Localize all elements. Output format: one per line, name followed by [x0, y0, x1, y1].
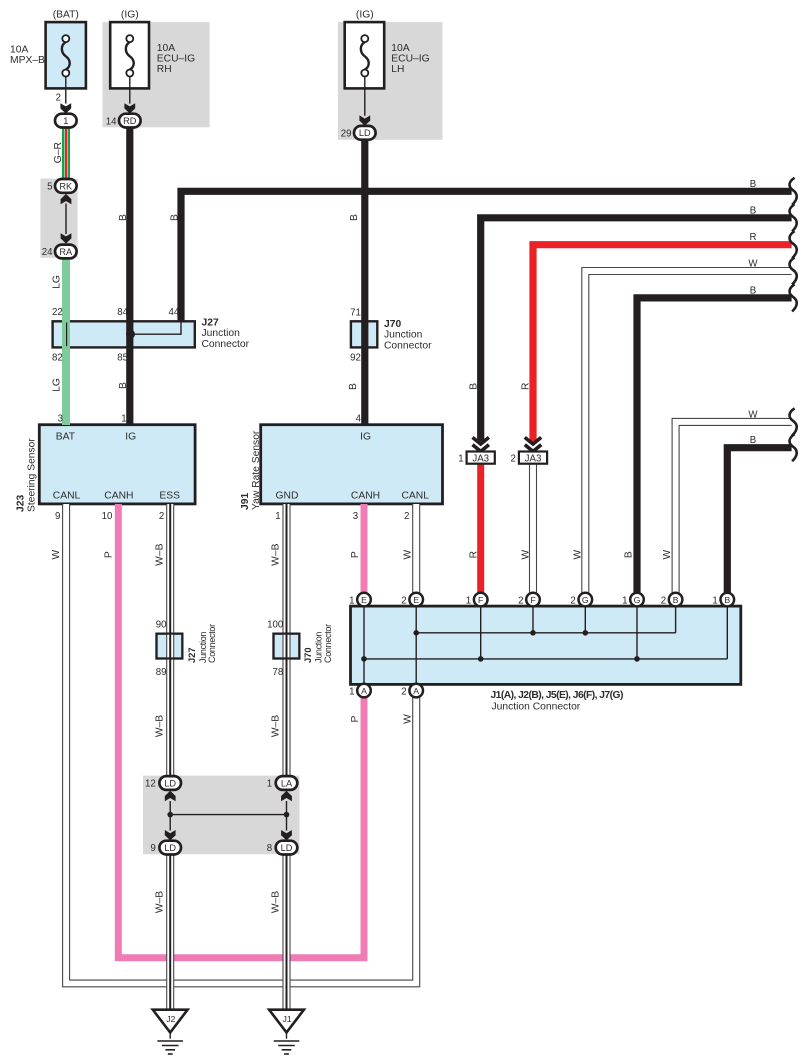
svg-text:B: B [348, 383, 359, 390]
svg-text:Connector: Connector [323, 624, 333, 663]
gray box dots [167, 812, 173, 818]
svg-text:B: B [750, 179, 756, 190]
svg-text:1: 1 [466, 595, 471, 606]
svg-text:14: 14 [106, 116, 117, 127]
svg-text:B: B [468, 383, 479, 390]
wire P steering CANH to junction 1A (U route) [118, 504, 364, 958]
svg-text:RA: RA [59, 247, 73, 257]
svg-text:J91: J91 [240, 493, 251, 510]
svg-text:G: G [634, 595, 641, 605]
svg-text:J1: J1 [283, 1014, 292, 1024]
svg-text:LH: LH [391, 64, 404, 75]
svg-text:J23: J23 [16, 495, 27, 512]
svg-text:B: B [118, 214, 129, 221]
svg-text:2: 2 [511, 454, 516, 465]
svg-text:2: 2 [401, 595, 406, 606]
svg-text:Connector: Connector [384, 340, 432, 351]
wire B from right edge to junction pin 1B [727, 448, 791, 594]
connector oval RK [55, 179, 77, 193]
svg-text:J27: J27 [202, 318, 219, 329]
junction box inner vertical 2E-2A [415, 606, 417, 684]
junction box upper bus line [416, 632, 675, 634]
continuation squiggle B y191 [790, 178, 797, 205]
svg-text:2: 2 [518, 595, 523, 606]
svg-text:CANL: CANL [53, 491, 81, 502]
junction connector J27 (top) box [53, 321, 195, 347]
wire W steering CANL to junction 2A (U route) [66, 504, 416, 983]
steering sensor J23 box [39, 425, 195, 504]
svg-text:W: W [520, 550, 531, 560]
fuse F3 symbol [361, 35, 369, 76]
svg-text:B: B [118, 382, 129, 389]
svg-text:JA3: JA3 [472, 453, 489, 464]
continuation squiggle W y421 [790, 408, 797, 435]
fuse F1 lead wire [65, 76, 67, 103]
svg-text:Junction: Junction [384, 330, 423, 341]
svg-text:8: 8 [267, 843, 272, 854]
svg-text:85: 85 [117, 352, 128, 363]
svg-text:1: 1 [458, 454, 463, 465]
svg-text:(BAT): (BAT) [53, 10, 79, 21]
svg-text:W: W [51, 550, 62, 560]
svg-text:1: 1 [63, 116, 68, 126]
junction box dots lower bus [361, 656, 367, 662]
svg-text:LG: LG [51, 378, 62, 392]
svg-text:A: A [361, 686, 367, 696]
svg-text:W: W [662, 550, 673, 560]
svg-text:B: B [169, 214, 180, 221]
svg-text:P: P [350, 715, 361, 722]
svg-text:R: R [468, 551, 479, 558]
svg-text:89: 89 [156, 667, 167, 678]
svg-text:B: B [623, 551, 634, 558]
continuation squiggle W y271 [790, 258, 797, 285]
junction pin circle 1E [357, 593, 371, 607]
svg-text:J27: J27 [187, 647, 197, 663]
wire R JA3 no.1 to junction 1F [477, 464, 484, 594]
svg-text:1: 1 [275, 511, 280, 522]
svg-text:MPX–B: MPX–B [10, 55, 45, 66]
wire LG from RA through J27 to steering sensor BAT [62, 258, 70, 425]
svg-text:W: W [748, 409, 758, 420]
svg-text:Junction Connector: Junction Connector [492, 702, 581, 713]
svg-text:B: B [349, 214, 360, 221]
wire R from right edge to JA3 no.2 [533, 245, 792, 442]
svg-text:(IG): (IG) [356, 10, 374, 21]
junction box lower bus line [364, 658, 727, 660]
junction box inner vertical 1F [480, 606, 482, 659]
svg-text:Yaw Rate Sensor: Yaw Rate Sensor [251, 430, 262, 510]
svg-text:B: B [673, 595, 679, 605]
svg-text:W: W [572, 550, 583, 560]
wire B from J27 pin 44 to right edge [181, 191, 792, 322]
connector oval LD 29 [354, 126, 376, 140]
gray box link lines [169, 801, 171, 831]
fuse F1 pin 2 arrow [60, 103, 71, 113]
junction connector J70 (top) box [351, 321, 377, 347]
wire W-B yaw GND down to ground J1 (three segments) [274, 504, 300, 1010]
svg-text:B: B [750, 285, 756, 296]
junction pin circle 1A [357, 684, 371, 698]
svg-text:F: F [530, 595, 535, 605]
svg-text:A: A [413, 686, 419, 696]
junction box inner vertical 1G [636, 606, 638, 659]
svg-text:100: 100 [267, 620, 284, 631]
gray connector block LD/LA [143, 776, 300, 855]
wire P yaw CANH to junction 1E [361, 504, 368, 593]
svg-text:44: 44 [169, 307, 180, 318]
LD up arrow left [165, 791, 176, 801]
wire B from right edge to JA3 no.1 [481, 218, 792, 442]
svg-text:W: W [403, 550, 414, 560]
svg-text:10A: 10A [10, 45, 28, 56]
svg-text:IG: IG [360, 432, 371, 443]
svg-text:CANH: CANH [104, 491, 133, 502]
svg-text:LD: LD [359, 128, 371, 138]
svg-text:Connector: Connector [207, 624, 217, 663]
svg-text:LD: LD [281, 843, 293, 853]
ground J1 [269, 1010, 304, 1054]
junction pin circle 2A [409, 684, 423, 698]
svg-text:10A: 10A [391, 43, 409, 54]
fuse F3 pin arrow [359, 115, 370, 125]
ground J2 [153, 1010, 188, 1054]
J27 top inner divider [66, 323, 68, 347]
svg-text:W–B: W–B [154, 891, 165, 913]
junction pin circle 1F [474, 593, 488, 607]
RK-RA up arrow [61, 194, 72, 204]
JA3 no.2 chevron arrows [525, 437, 541, 451]
svg-text:10A: 10A [157, 43, 175, 54]
svg-text:G: G [582, 595, 589, 605]
continuation squiggle R y244 [790, 231, 797, 258]
continuation squiggle B y447 [790, 434, 797, 461]
svg-text:LG: LG [51, 275, 62, 289]
connector oval LD 8 [276, 841, 298, 855]
J27 top junction dot [126, 330, 135, 339]
svg-text:LD: LD [164, 778, 176, 788]
RK-RA down arrow [61, 233, 72, 243]
svg-text:J2: J2 [166, 1014, 175, 1024]
svg-text:GND: GND [276, 491, 299, 502]
svg-text:BAT: BAT [56, 432, 76, 443]
svg-text:RD: RD [123, 116, 137, 126]
svg-text:Steering Sensor: Steering Sensor [27, 438, 38, 512]
svg-text:29: 29 [341, 129, 352, 140]
JA3 no.2 box [519, 452, 547, 465]
svg-text:2: 2 [404, 511, 409, 522]
svg-text:P: P [350, 551, 361, 558]
wire B from right edge to junction pin 1G [637, 298, 792, 593]
fuse F3 10A ECU-IG LH box [345, 22, 385, 88]
svg-text:RH: RH [157, 64, 172, 75]
fuse F2 10A ECU-IG RH box [110, 22, 149, 88]
fuse F3 lead wire [364, 76, 366, 115]
wire W-B steering ESS down to ground J2 (three segments) [157, 504, 183, 1010]
RK-RA link line [65, 204, 67, 235]
wire W JA3 no.2 to junction 2F [530, 464, 537, 594]
junction connector J1/J2/J5/J6/J7 box [351, 606, 741, 684]
junction pin circle 2B [669, 593, 683, 607]
junction box inner vertical 2G [584, 606, 586, 633]
svg-text:R: R [750, 232, 757, 243]
svg-text:W–B: W–B [271, 715, 282, 737]
J27 top inner link from pin 44 [131, 323, 182, 335]
svg-text:82: 82 [52, 352, 63, 363]
svg-text:R: R [520, 383, 531, 390]
svg-text:E: E [413, 595, 419, 605]
svg-text:12: 12 [145, 779, 156, 790]
LD down arrow right [281, 830, 292, 840]
svg-text:1: 1 [622, 595, 627, 606]
svg-text:24: 24 [42, 247, 53, 258]
svg-text:J1(A), J2(B), J5(E), J6(F), J7: J1(A), J2(B), J5(E), J6(F), J7(G) [491, 690, 623, 701]
svg-text:W: W [403, 714, 414, 724]
svg-text:78: 78 [273, 667, 284, 678]
junction pin circle 2F [526, 593, 540, 607]
svg-text:Junction: Junction [202, 328, 241, 339]
svg-text:LA: LA [281, 778, 293, 788]
wire W yaw CANL to junction 2E [413, 504, 420, 593]
junction connector J27 (lower) box [157, 634, 183, 659]
svg-text:90: 90 [156, 620, 167, 631]
svg-text:RK: RK [59, 181, 73, 191]
svg-text:ECU–IG: ECU–IG [157, 54, 195, 65]
wire B fuse F2 to J27 to steering sensor IG [126, 127, 133, 425]
svg-text:W–B: W–B [271, 891, 282, 913]
svg-text:IG: IG [125, 432, 136, 443]
LD down arrow left [165, 830, 176, 840]
svg-text:ESS: ESS [159, 491, 180, 502]
svg-text:CANH: CANH [351, 491, 380, 502]
wire B fuse F3 to J70 to yaw rate sensor IG [361, 140, 368, 425]
svg-text:1: 1 [267, 779, 272, 790]
wire G-R from connector 1 to RK [62, 127, 70, 179]
connector oval RA [55, 245, 77, 259]
junction box inner vertical 1B [726, 606, 728, 659]
svg-text:F: F [478, 595, 483, 605]
svg-text:1: 1 [121, 414, 126, 425]
gray connector block RK/RA [40, 179, 77, 258]
svg-text:W: W [748, 259, 758, 270]
fuse F1 10A MPX-B box [46, 22, 86, 88]
continuation squiggle B y297 [790, 284, 797, 311]
junction box inner vertical 2F [532, 606, 534, 633]
svg-text:3: 3 [353, 511, 358, 522]
fuse F2 pin arrow [124, 103, 135, 113]
connector oval LA 1 [276, 776, 298, 790]
gray background behind fuse ECU-IG RH [103, 22, 210, 127]
svg-text:5: 5 [47, 182, 52, 193]
svg-text:J70: J70 [303, 647, 313, 663]
svg-text:84: 84 [117, 307, 128, 318]
svg-text:(IG): (IG) [121, 10, 139, 21]
connector oval LD 12 [159, 776, 181, 790]
junction pin circle 1B [721, 593, 735, 607]
svg-text:71: 71 [350, 308, 361, 319]
junction pin circle 1G [630, 593, 644, 607]
svg-text:B: B [750, 205, 756, 216]
fuse F2 symbol [126, 35, 134, 76]
svg-text:3: 3 [58, 414, 63, 425]
fuse F2 lead wire [129, 76, 131, 103]
fuse F1 symbol [62, 35, 70, 76]
svg-text:2: 2 [56, 93, 61, 104]
svg-text:B: B [724, 595, 730, 605]
svg-text:CANL: CANL [401, 491, 429, 502]
wire W from right edge to junction pin 2G [585, 271, 791, 593]
svg-text:1: 1 [349, 595, 354, 606]
connector oval LD 9 [159, 841, 181, 855]
svg-text:9: 9 [55, 511, 60, 522]
svg-text:ECU–IG: ECU–IG [391, 54, 429, 65]
svg-text:W–B: W–B [154, 715, 165, 737]
svg-text:E: E [361, 595, 367, 605]
LA up arrow right [281, 791, 292, 801]
svg-text:9: 9 [150, 843, 155, 854]
svg-text:J70: J70 [384, 319, 401, 330]
svg-text:G–R: G–R [53, 142, 64, 163]
gray background behind fuse ECU-IG LH [338, 22, 443, 140]
JA3 no.1 chevron arrows [473, 437, 489, 451]
svg-text:W–B: W–B [154, 543, 165, 565]
svg-text:P: P [103, 551, 114, 558]
svg-text:2: 2 [570, 595, 575, 606]
svg-text:92: 92 [350, 352, 361, 363]
svg-text:W–B: W–B [271, 543, 282, 565]
junction pin circle 2G [579, 593, 593, 607]
JA3 no.1 box [467, 452, 495, 465]
svg-text:22: 22 [52, 307, 63, 318]
svg-text:1: 1 [712, 595, 717, 606]
svg-text:B: B [750, 435, 756, 446]
svg-text:LD: LD [164, 843, 176, 853]
junction box dots upper bus [413, 630, 419, 636]
connector oval 1 [55, 114, 77, 128]
svg-text:10: 10 [102, 511, 113, 522]
svg-text:JA3: JA3 [525, 453, 542, 464]
junction pin circle 2E [409, 593, 423, 607]
wire W from right edge to junction pin 2B [676, 422, 792, 593]
svg-text:2: 2 [159, 511, 164, 522]
yaw rate sensor J91 box [261, 425, 443, 504]
svg-text:Connector: Connector [202, 339, 250, 350]
svg-text:4: 4 [356, 414, 362, 425]
junction connector J70 (lower) box [274, 634, 300, 659]
continuation squiggle B y217 [790, 204, 797, 231]
svg-text:2: 2 [401, 686, 406, 697]
junction box inner vertical 2B [675, 606, 677, 633]
svg-text:1: 1 [349, 686, 354, 697]
svg-text:2: 2 [661, 595, 666, 606]
connector oval RD [119, 114, 141, 128]
junction box inner vertical 1E-1A [363, 606, 365, 684]
